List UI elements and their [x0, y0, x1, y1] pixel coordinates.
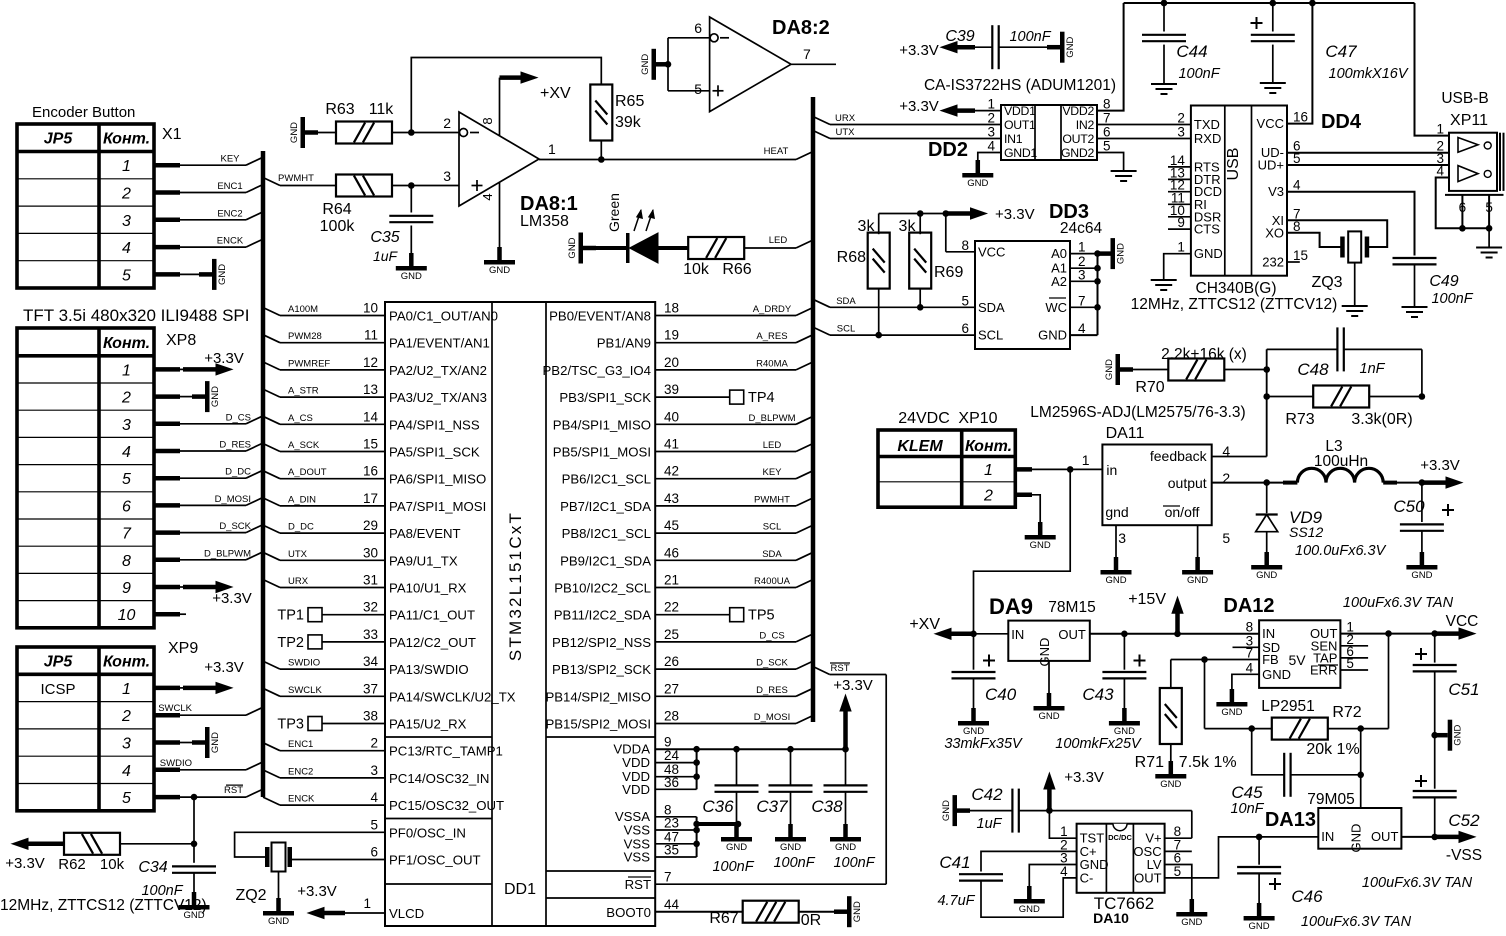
- svg-text:C50: C50: [1393, 497, 1425, 516]
- svg-text:IN: IN: [1321, 829, 1334, 844]
- svg-text:+3.3V: +3.3V: [995, 206, 1035, 223]
- svg-text:4: 4: [122, 240, 131, 257]
- svg-text:2: 2: [983, 488, 993, 505]
- svg-text:ZQ2: ZQ2: [235, 887, 266, 904]
- svg-text:OUT: OUT: [1134, 870, 1162, 885]
- svg-text:5: 5: [122, 471, 131, 488]
- svg-text:24: 24: [664, 748, 680, 763]
- svg-text:31: 31: [363, 573, 378, 588]
- svg-text:V3: V3: [1268, 184, 1284, 199]
- svg-text:7.5k 1%: 7.5k 1%: [1179, 754, 1237, 771]
- svg-text:+3.3V: +3.3V: [899, 98, 939, 115]
- svg-text:PA10/U1_RX: PA10/U1_RX: [389, 581, 467, 596]
- svg-text:2: 2: [443, 115, 451, 131]
- svg-text:D_MOSI: D_MOSI: [754, 712, 790, 723]
- svg-text:ENC2: ENC2: [288, 766, 313, 777]
- svg-text:+XV: +XV: [909, 616, 940, 633]
- svg-text:1: 1: [122, 681, 131, 698]
- svg-text:STM32L151CxT: STM32L151CxT: [506, 511, 525, 661]
- svg-text:8: 8: [122, 553, 131, 570]
- svg-text:34: 34: [363, 654, 379, 669]
- svg-text:1: 1: [548, 141, 556, 157]
- svg-text:GND: GND: [1038, 328, 1067, 343]
- svg-text:LM358: LM358: [520, 213, 569, 230]
- svg-text:3: 3: [122, 213, 131, 230]
- svg-text:3: 3: [1118, 530, 1126, 546]
- svg-text:in: in: [1106, 462, 1117, 478]
- svg-text:33: 33: [363, 627, 378, 642]
- svg-text:232: 232: [1262, 255, 1284, 270]
- svg-text:3.3k(0R): 3.3k(0R): [1351, 411, 1412, 428]
- svg-text:VDD: VDD: [622, 782, 650, 797]
- svg-text:DA10: DA10: [1093, 910, 1129, 926]
- svg-text:28: 28: [664, 709, 679, 724]
- svg-text:PA14/SWCLK/U2_TX: PA14/SWCLK/U2_TX: [389, 689, 516, 704]
- svg-text:RST: RST: [831, 663, 850, 674]
- svg-text:C51: C51: [1448, 680, 1479, 699]
- svg-text:gnd: gnd: [1105, 504, 1128, 520]
- svg-text:KEY: KEY: [762, 467, 782, 478]
- svg-text:-VSS: -VSS: [1446, 847, 1482, 864]
- svg-text:24c64: 24c64: [1060, 220, 1103, 237]
- svg-text:3k: 3k: [899, 218, 917, 235]
- svg-text:GND: GND: [217, 264, 228, 285]
- svg-text:D_SCK: D_SCK: [756, 658, 788, 669]
- svg-text:4: 4: [122, 444, 131, 461]
- svg-text:PA6/SPI1_MISO: PA6/SPI1_MISO: [389, 472, 486, 487]
- svg-text:FB: FB: [1262, 652, 1279, 667]
- svg-text:D_CS: D_CS: [759, 630, 784, 641]
- svg-text:42: 42: [664, 464, 679, 479]
- svg-text:R400UA: R400UA: [754, 576, 791, 587]
- svg-text:ENC1: ENC1: [217, 181, 242, 192]
- svg-text:4: 4: [370, 790, 378, 805]
- svg-text:C38: C38: [811, 797, 843, 816]
- svg-text:8: 8: [961, 238, 969, 253]
- svg-text:R68: R68: [837, 249, 866, 266]
- svg-text:JP5: JP5: [44, 131, 74, 148]
- svg-text:PA1/EVENT/AN1: PA1/EVENT/AN1: [389, 336, 490, 351]
- svg-text:GND: GND: [941, 800, 952, 821]
- svg-text:6: 6: [1103, 125, 1111, 140]
- svg-text:R63: R63: [325, 101, 354, 118]
- svg-text:79M05: 79M05: [1307, 791, 1354, 808]
- svg-text:GND: GND: [1030, 540, 1051, 551]
- svg-text:ICSP: ICSP: [40, 681, 75, 698]
- svg-text:SCL: SCL: [763, 522, 781, 533]
- svg-text:R40MA: R40MA: [756, 358, 788, 369]
- svg-text:IN2: IN2: [1076, 118, 1095, 132]
- svg-text:XP11: XP11: [1450, 112, 1488, 129]
- svg-text:R73: R73: [1285, 411, 1314, 428]
- svg-text:GND: GND: [210, 732, 221, 753]
- svg-text:GND: GND: [780, 842, 801, 853]
- svg-text:1: 1: [1177, 240, 1185, 255]
- svg-text:R64: R64: [322, 201, 351, 218]
- svg-text:PB2/TSC_G3_IO4: PB2/TSC_G3_IO4: [543, 363, 651, 378]
- svg-text:PB10/I2C2_SCL: PB10/I2C2_SCL: [554, 581, 651, 596]
- svg-text:16: 16: [1293, 110, 1308, 125]
- svg-text:PA12/C2_OUT: PA12/C2_OUT: [389, 635, 476, 650]
- svg-text:19: 19: [664, 328, 679, 343]
- svg-text:PA4/SPI1_NSS: PA4/SPI1_NSS: [389, 417, 480, 432]
- svg-text:PB3/SPI1_SCK: PB3/SPI1_SCK: [559, 390, 651, 405]
- svg-text:35: 35: [664, 843, 679, 858]
- svg-text:5: 5: [1174, 864, 1182, 879]
- svg-text:7: 7: [1103, 111, 1111, 126]
- svg-text:11: 11: [364, 328, 378, 343]
- svg-text:GND: GND: [852, 901, 863, 922]
- svg-text:URX: URX: [288, 576, 309, 587]
- svg-text:C40: C40: [985, 685, 1017, 704]
- svg-text:1: 1: [363, 896, 371, 911]
- svg-text:XP9: XP9: [168, 640, 198, 657]
- svg-text:LED: LED: [769, 235, 788, 246]
- svg-text:OUT: OUT: [1058, 627, 1086, 642]
- svg-text:KLEM: KLEM: [897, 438, 943, 455]
- svg-text:UTX: UTX: [836, 127, 856, 138]
- svg-text:PWMREF: PWMREF: [288, 358, 330, 369]
- svg-text:OUT2: OUT2: [1062, 132, 1094, 146]
- svg-text:feedback: feedback: [1150, 448, 1208, 464]
- svg-text:DA11: DA11: [1106, 425, 1145, 442]
- svg-text:C52: C52: [1448, 811, 1480, 830]
- svg-text:TP4: TP4: [748, 390, 775, 406]
- svg-text:9: 9: [1177, 215, 1185, 230]
- svg-text:3: 3: [370, 763, 378, 778]
- svg-text:44: 44: [664, 897, 680, 912]
- svg-text:KEY: KEY: [220, 154, 240, 165]
- svg-text:11k: 11k: [369, 101, 395, 118]
- svg-text:Конт.: Конт.: [103, 131, 150, 148]
- svg-text:4: 4: [1078, 321, 1086, 336]
- svg-text:100mkX16V: 100mkX16V: [1329, 66, 1409, 82]
- svg-text:A_DRDY: A_DRDY: [753, 304, 792, 315]
- svg-text:XP8: XP8: [166, 332, 196, 349]
- svg-text:DA9: DA9: [989, 594, 1033, 619]
- svg-text:DD2: DD2: [928, 139, 968, 161]
- svg-text:SCL: SCL: [978, 328, 1003, 343]
- svg-text:38: 38: [363, 709, 378, 724]
- svg-text:PB13/SPI2_SCK: PB13/SPI2_SCK: [552, 662, 651, 677]
- svg-text:45: 45: [664, 518, 679, 533]
- svg-text:10k: 10k: [683, 261, 710, 278]
- svg-text:100k: 100k: [320, 218, 356, 235]
- svg-text:output: output: [1168, 475, 1207, 491]
- svg-text:3: 3: [1177, 125, 1185, 140]
- svg-text:A_SCK: A_SCK: [288, 440, 320, 451]
- svg-text:PB11/I2C2_SDA: PB11/I2C2_SDA: [554, 608, 651, 623]
- svg-text:8: 8: [1103, 97, 1111, 112]
- svg-text:GND1: GND1: [1004, 146, 1037, 160]
- svg-text:5: 5: [1222, 530, 1230, 546]
- svg-text:PB9/I2C1_SDA: PB9/I2C1_SDA: [560, 553, 651, 568]
- svg-text:PA15/U2_RX: PA15/U2_RX: [389, 717, 467, 732]
- svg-text:20k 1%: 20k 1%: [1306, 741, 1359, 758]
- svg-text:C44: C44: [1176, 42, 1207, 61]
- svg-text:TFT 3.5i 480x320 ILI9488 SPI: TFT 3.5i 480x320 ILI9488 SPI: [23, 306, 250, 325]
- svg-text:CA-IS3722HS (ADUM1201): CA-IS3722HS (ADUM1201): [924, 77, 1116, 94]
- svg-text:R70: R70: [1135, 379, 1164, 396]
- svg-text:PB12/SPI2_NSS: PB12/SPI2_NSS: [552, 635, 651, 650]
- svg-text:+3.3V: +3.3V: [5, 855, 45, 872]
- svg-text:4: 4: [480, 193, 495, 200]
- svg-text:URX: URX: [835, 113, 856, 124]
- svg-text:1uF: 1uF: [977, 816, 1003, 832]
- svg-text:D_DC: D_DC: [225, 467, 251, 478]
- svg-text:6: 6: [122, 498, 131, 515]
- svg-text:GND: GND: [1453, 725, 1464, 746]
- svg-text:VCC: VCC: [1257, 116, 1284, 131]
- svg-text:Конт.: Конт.: [103, 335, 150, 352]
- svg-text:DA8:2: DA8:2: [772, 17, 830, 39]
- svg-text:GND: GND: [1160, 779, 1181, 790]
- svg-text:PA13/SWDIO: PA13/SWDIO: [389, 662, 469, 677]
- svg-text:Конт.: Конт.: [965, 438, 1012, 455]
- svg-text:TP1: TP1: [277, 608, 304, 624]
- svg-text:GND: GND: [1221, 707, 1242, 718]
- svg-text:SCL: SCL: [837, 324, 855, 335]
- svg-text:6: 6: [370, 845, 378, 860]
- svg-text:C-: C-: [1080, 870, 1094, 885]
- svg-text:PF0/OSC_IN: PF0/OSC_IN: [389, 825, 466, 840]
- svg-text:7: 7: [803, 46, 811, 62]
- svg-text:PB1/AN9: PB1/AN9: [597, 336, 651, 351]
- svg-text:D_CS: D_CS: [226, 412, 251, 423]
- svg-text:A0: A0: [1051, 246, 1067, 261]
- svg-text:UTX: UTX: [288, 549, 308, 560]
- svg-text:GND: GND: [726, 842, 747, 853]
- svg-text:2: 2: [1177, 111, 1185, 126]
- svg-text:100nF: 100nF: [1431, 291, 1473, 307]
- svg-text:HEAT: HEAT: [764, 146, 789, 157]
- svg-text:17: 17: [363, 491, 378, 506]
- svg-text:5: 5: [1103, 139, 1111, 154]
- svg-text:SS12: SS12: [1289, 524, 1323, 540]
- svg-text:GND: GND: [268, 916, 289, 927]
- svg-text:D_MOSI: D_MOSI: [215, 494, 251, 505]
- svg-text:PA8/EVENT: PA8/EVENT: [389, 526, 461, 541]
- svg-text:PA5/SPI1_SCK: PA5/SPI1_SCK: [389, 445, 480, 460]
- svg-text:XO: XO: [1265, 225, 1284, 240]
- svg-text:GND: GND: [1349, 824, 1364, 853]
- svg-text:GND: GND: [401, 271, 422, 282]
- svg-text:3: 3: [122, 736, 131, 753]
- svg-text:GND: GND: [1065, 37, 1076, 58]
- svg-text:GND: GND: [289, 122, 300, 143]
- svg-text:IN: IN: [1011, 627, 1024, 642]
- svg-text:12MHz, ZTTCS12 (ZTTCV12): 12MHz, ZTTCS12 (ZTTCV12): [1131, 296, 1338, 313]
- svg-text:2: 2: [121, 186, 131, 203]
- svg-text:A2: A2: [1051, 274, 1067, 289]
- svg-text:7: 7: [1078, 293, 1086, 308]
- svg-text:PA3/U2_TX/AN3: PA3/U2_TX/AN3: [389, 390, 487, 405]
- svg-text:VCC: VCC: [1446, 613, 1479, 630]
- svg-text:+3.3V: +3.3V: [297, 883, 337, 900]
- svg-text:21: 21: [664, 573, 679, 588]
- svg-text:14: 14: [363, 409, 379, 424]
- svg-text:3: 3: [443, 168, 451, 184]
- svg-text:10k: 10k: [100, 856, 125, 873]
- svg-text:2.2k+16k (x): 2.2k+16k (x): [1161, 346, 1247, 363]
- svg-text:OUT1: OUT1: [1004, 118, 1036, 132]
- svg-text:TP3: TP3: [277, 717, 304, 733]
- svg-text:UD+: UD+: [1258, 158, 1284, 173]
- svg-text:24VDC: 24VDC: [898, 410, 950, 427]
- svg-text:RST: RST: [224, 785, 243, 796]
- svg-text:100uHn: 100uHn: [1314, 453, 1368, 470]
- svg-text:SWDIO: SWDIO: [160, 758, 192, 769]
- svg-text:41: 41: [664, 437, 679, 452]
- svg-text:1: 1: [1078, 240, 1086, 255]
- svg-text:VDD2: VDD2: [1062, 104, 1094, 118]
- svg-text:100nF: 100nF: [833, 855, 875, 871]
- svg-text:18: 18: [664, 301, 679, 316]
- svg-text:22: 22: [664, 600, 679, 615]
- svg-text:D_BLPWM: D_BLPWM: [749, 413, 796, 424]
- svg-text:OUT: OUT: [1371, 829, 1399, 844]
- svg-text:12MHz, ZTTCS12 (ZTTCV12): 12MHz, ZTTCS12 (ZTTCV12): [0, 897, 207, 914]
- svg-text:GND: GND: [640, 54, 651, 75]
- svg-text:33mkFx35V: 33mkFx35V: [944, 736, 1023, 752]
- svg-text:R67: R67: [709, 910, 738, 927]
- svg-text:PWMHT: PWMHT: [754, 494, 790, 505]
- svg-text:1: 1: [1082, 452, 1090, 468]
- svg-text:15: 15: [363, 437, 378, 452]
- svg-text:C45: C45: [1231, 783, 1263, 802]
- svg-text:1nF: 1nF: [1360, 361, 1386, 377]
- svg-text:1: 1: [122, 362, 131, 379]
- svg-text:GND: GND: [967, 178, 988, 189]
- svg-text:32: 32: [363, 600, 378, 615]
- svg-text:GND: GND: [1411, 570, 1432, 581]
- svg-text:6: 6: [1459, 200, 1467, 215]
- svg-text:C41: C41: [939, 853, 970, 872]
- svg-text:9: 9: [122, 580, 131, 597]
- svg-text:46: 46: [664, 545, 679, 560]
- svg-text:D_BLPWM: D_BLPWM: [204, 548, 251, 559]
- svg-text:1: 1: [122, 158, 131, 175]
- svg-text:GND: GND: [567, 237, 578, 258]
- svg-text:A_DIN: A_DIN: [288, 494, 316, 505]
- svg-text:PA2/U2_TX/AN2: PA2/U2_TX/AN2: [389, 363, 487, 378]
- svg-text:DA12: DA12: [1223, 595, 1274, 617]
- svg-text:VSS: VSS: [624, 850, 651, 865]
- svg-text:PB4/SPI1_MISO: PB4/SPI1_MISO: [553, 417, 651, 432]
- svg-text:23: 23: [664, 816, 679, 831]
- svg-text:BOOT0: BOOT0: [606, 905, 651, 920]
- svg-text:GND: GND: [1262, 667, 1291, 682]
- svg-text:27: 27: [664, 681, 679, 696]
- svg-text:PB15/SPI2_MOSI: PB15/SPI2_MOSI: [545, 717, 651, 732]
- svg-text:D_DC: D_DC: [288, 522, 314, 533]
- svg-text:+15V: +15V: [1128, 591, 1166, 608]
- svg-text:A_DOUT: A_DOUT: [288, 467, 327, 478]
- svg-text:GND: GND: [1187, 575, 1208, 586]
- svg-text:GND: GND: [1104, 359, 1115, 380]
- svg-text:4: 4: [1060, 864, 1068, 879]
- svg-text:+XV: +XV: [540, 85, 571, 102]
- svg-text:5: 5: [1485, 200, 1493, 215]
- svg-text:+3.3V: +3.3V: [212, 590, 252, 607]
- svg-text:A100M: A100M: [288, 304, 318, 315]
- svg-text:4: 4: [1293, 178, 1301, 193]
- svg-text:0R: 0R: [801, 912, 821, 929]
- svg-text:PA7/SPI1_MOSI: PA7/SPI1_MOSI: [389, 499, 486, 514]
- svg-text:2: 2: [121, 390, 131, 407]
- svg-text:GND: GND: [1038, 711, 1059, 722]
- svg-text:+3.3V: +3.3V: [833, 677, 873, 694]
- svg-text:DC/DC: DC/DC: [1108, 833, 1132, 842]
- svg-text:GND: GND: [1019, 904, 1040, 915]
- svg-text:100.0uFx6.3V: 100.0uFx6.3V: [1295, 543, 1387, 559]
- svg-text:1uF: 1uF: [373, 248, 399, 264]
- svg-text:XP10: XP10: [958, 410, 997, 427]
- svg-text:4.7uF: 4.7uF: [937, 893, 975, 909]
- svg-text:PB0/EVENT/AN8: PB0/EVENT/AN8: [549, 309, 651, 324]
- svg-text:VSS: VSS: [624, 823, 651, 838]
- svg-text:GND: GND: [210, 386, 221, 407]
- svg-text:40: 40: [664, 409, 679, 424]
- svg-text:100uFx6.3V TAN: 100uFx6.3V TAN: [1343, 595, 1454, 611]
- svg-text:DA8:1: DA8:1: [520, 193, 578, 215]
- svg-text:4: 4: [122, 763, 131, 780]
- svg-text:8: 8: [480, 117, 495, 124]
- svg-text:GND: GND: [1181, 917, 1202, 928]
- svg-text:SWDIO: SWDIO: [288, 658, 320, 669]
- svg-text:12: 12: [363, 355, 378, 370]
- svg-text:PC15/OSC32_OUT: PC15/OSC32_OUT: [389, 798, 504, 813]
- svg-text:5: 5: [122, 790, 131, 807]
- svg-text:PC14/OSC32_IN: PC14/OSC32_IN: [389, 771, 489, 786]
- svg-text:+3.3V: +3.3V: [1064, 769, 1104, 786]
- svg-text:SDA: SDA: [836, 296, 856, 307]
- svg-text:D_SCK: D_SCK: [219, 521, 251, 532]
- svg-text:JP5: JP5: [44, 653, 74, 670]
- svg-text:Конт.: Конт.: [103, 653, 150, 670]
- svg-text:PB6/I2C1_SCL: PB6/I2C1_SCL: [562, 472, 651, 487]
- svg-text:100uFx6.3V TAN: 100uFx6.3V TAN: [1362, 875, 1473, 891]
- svg-text:LP2951: LP2951: [1261, 698, 1314, 715]
- svg-text:2: 2: [121, 708, 131, 725]
- svg-text:PA9/U1_TX: PA9/U1_TX: [389, 553, 458, 568]
- svg-text:C42: C42: [971, 785, 1003, 804]
- svg-text:PA11/C1_OUT: PA11/C1_OUT: [389, 608, 475, 623]
- svg-text:D_RES: D_RES: [756, 685, 788, 696]
- svg-text:+3.3V: +3.3V: [204, 350, 244, 367]
- svg-text:PB7/I2C1_SDA: PB7/I2C1_SDA: [560, 499, 651, 514]
- svg-text:4: 4: [1246, 660, 1254, 675]
- svg-text:PB14/SPI2_MISO: PB14/SPI2_MISO: [545, 689, 651, 704]
- svg-text:100uFx6.3V TAN: 100uFx6.3V TAN: [1301, 914, 1412, 930]
- svg-text:R62: R62: [58, 856, 86, 873]
- svg-text:RST: RST: [625, 877, 651, 892]
- svg-text:C39: C39: [945, 28, 974, 45]
- svg-text:5: 5: [122, 267, 131, 284]
- svg-text:DD4: DD4: [1321, 111, 1362, 133]
- svg-text:+3.3V: +3.3V: [1420, 457, 1460, 474]
- svg-text:7: 7: [664, 870, 672, 885]
- svg-text:13: 13: [363, 382, 378, 397]
- svg-text:100nF: 100nF: [712, 859, 754, 875]
- svg-text:29: 29: [363, 518, 378, 533]
- svg-text:R71: R71: [1135, 754, 1164, 771]
- svg-text:25: 25: [664, 627, 679, 642]
- svg-text:26: 26: [664, 654, 679, 669]
- svg-text:GND: GND: [1116, 243, 1127, 264]
- svg-text:VCC: VCC: [978, 244, 1005, 259]
- svg-text:C47: C47: [1325, 42, 1357, 61]
